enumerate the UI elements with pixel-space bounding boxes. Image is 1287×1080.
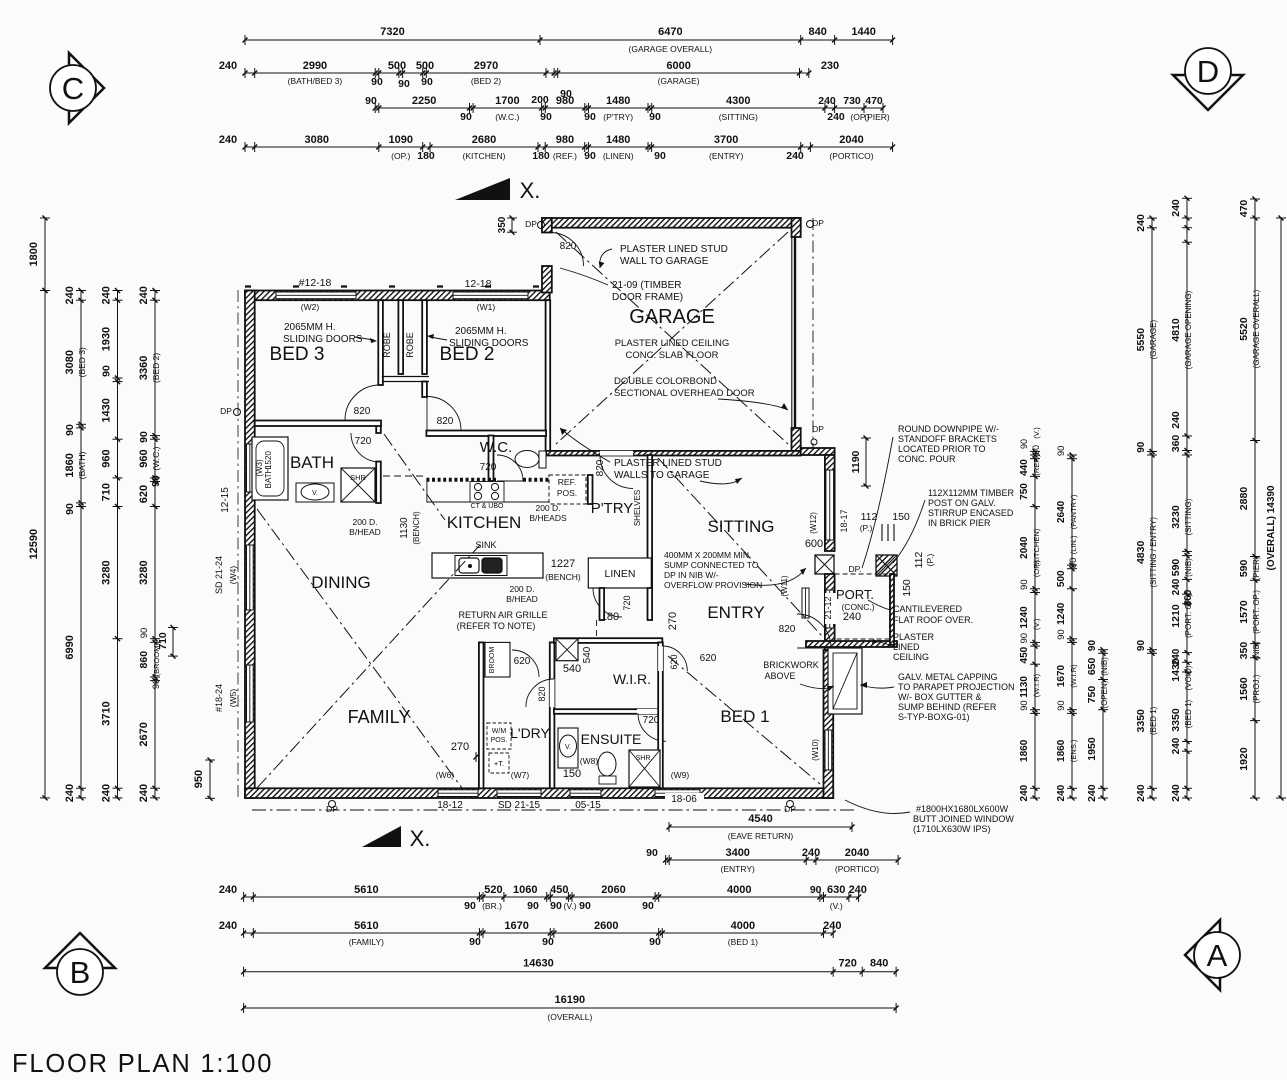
dimension col right-2: [1056, 446, 1079, 802]
diag dining-family 2: [257, 545, 480, 788]
svg-text:90: 90: [64, 424, 76, 436]
svg-text:240: 240: [823, 920, 841, 932]
svg-text:1480: 1480: [606, 134, 630, 146]
wall: sitting right jog top: [801, 448, 835, 455]
svg-text:90: 90: [1087, 640, 1098, 652]
wall: hall left stub: [376, 426, 381, 434]
svg-text:LINED: LINED: [893, 642, 920, 652]
svg-text:(SITTING): (SITTING): [719, 112, 758, 122]
svg-text:(OVERALL): (OVERALL): [547, 1012, 592, 1022]
svg-text:B/HEADS: B/HEADS: [529, 513, 567, 523]
svg-text:90: 90: [1019, 579, 1030, 590]
svg-text:90: 90: [460, 111, 472, 123]
svg-text:270: 270: [451, 741, 469, 753]
svg-text:2600: 2600: [594, 920, 618, 932]
svg-text:240: 240: [64, 784, 76, 802]
svg-text:2640: 2640: [1056, 500, 1067, 523]
svg-text:POST ON GALV.: POST ON GALV.: [928, 498, 996, 508]
svg-text:(W12): (W12): [809, 512, 818, 534]
svg-text:720: 720: [480, 462, 497, 473]
dimension bottom row-D: [219, 920, 842, 948]
svg-text:200 D.: 200 D.: [535, 503, 560, 513]
svg-text:BED 1: BED 1: [720, 707, 769, 726]
svg-text:LINEN: LINEN: [605, 568, 636, 580]
svg-text:90: 90: [1136, 640, 1147, 652]
dimension col right-5: [1170, 196, 1194, 802]
bath tub: [252, 437, 288, 500]
svg-text:90: 90: [1056, 446, 1067, 457]
svg-text:90: 90: [1019, 700, 1030, 711]
svg-text:(CONC.): (CONC.): [841, 602, 874, 612]
svg-text:2040: 2040: [845, 847, 869, 859]
svg-text:OVERFLOW PROVISION: OVERFLOW PROVISION: [664, 580, 762, 590]
svg-text:(SITTING / ENTRY): (SITTING / ENTRY): [1149, 517, 1158, 588]
broom closet: [485, 642, 510, 677]
svg-text:820: 820: [560, 241, 577, 252]
svg-text:590: 590: [1238, 559, 1250, 577]
svg-text:112X112MM TIMBER: 112X112MM TIMBER: [928, 488, 1015, 498]
wall: sitting right exterior: [825, 455, 835, 551]
bulkhead dash kitchen: [383, 475, 426, 477]
svg-text:960: 960: [101, 449, 113, 467]
svg-text:14630: 14630: [523, 958, 554, 970]
svg-text:240: 240: [138, 286, 150, 304]
svg-text:(W1): (W1): [477, 302, 496, 312]
dimension bottom row-B (3400 entry / 2040 portico): [646, 847, 900, 874]
svg-text:(PORTICO): (PORTICO): [835, 864, 879, 874]
svg-text:2880: 2880: [1238, 487, 1250, 511]
svg-text:3080: 3080: [64, 350, 76, 374]
corner marker A: [1185, 920, 1240, 990]
wall: bed2 left: [422, 382, 427, 398]
svg-text:ROBE: ROBE: [405, 332, 415, 358]
svg-text:1060: 1060: [513, 884, 537, 896]
svg-text:6470: 6470: [658, 26, 682, 38]
svg-text:(BENCH): (BENCH): [412, 511, 421, 545]
svg-text:(W2): (W2): [301, 302, 320, 312]
wall: garage bottom stud: [546, 451, 801, 456]
svg-text:90: 90: [1068, 558, 1079, 569]
svg-text:540: 540: [582, 646, 593, 663]
svg-text:1090: 1090: [389, 134, 413, 146]
svg-text:12-18: 12-18: [465, 278, 492, 290]
svg-text:B: B: [70, 955, 91, 990]
door arc bath 720: [351, 433, 380, 462]
svg-text:1670: 1670: [504, 920, 528, 932]
svg-text:1130: 1130: [1019, 676, 1030, 698]
svg-text:(GARAGE OVERALL): (GARAGE OVERALL): [1252, 289, 1261, 368]
tub box: [489, 753, 509, 773]
dimension col left-1b (12590): [28, 288, 50, 800]
svg-text:90: 90: [1031, 445, 1041, 455]
window W4 dining left: [247, 545, 254, 610]
svg-text:200 D.: 200 D.: [352, 517, 377, 527]
dimension col right-4: [1135, 214, 1158, 802]
svg-text:D: D: [1197, 54, 1219, 89]
svg-text:SLIDING DOORS: SLIDING DOORS: [283, 334, 363, 345]
svg-text:BUTT JOINED WINDOW: BUTT JOINED WINDOW: [913, 814, 1014, 824]
wall: pantry/linen divider: [648, 455, 653, 588]
svg-text:90: 90: [1019, 633, 1030, 644]
svg-text:(OP.): (OP.): [391, 151, 410, 161]
diag bed1: [668, 656, 820, 784]
dim 950 (left small): [193, 758, 215, 801]
svg-text:240: 240: [64, 286, 76, 304]
svg-text:(W3): (W3): [255, 459, 264, 477]
svg-text:SECTIONAL OVERHEAD DOOR: SECTIONAL OVERHEAD DOOR: [614, 388, 755, 399]
svg-text:16190: 16190: [555, 994, 586, 1006]
svg-text:240: 240: [101, 784, 113, 802]
diag hall: [384, 434, 445, 520]
svg-text:720: 720: [355, 436, 372, 447]
svg-text:ROUND DOWNPIPE W/-: ROUND DOWNPIPE W/-: [898, 424, 999, 434]
svg-text:FAMILY: FAMILY: [348, 707, 411, 727]
svg-text:WALLS TO GARAGE: WALLS TO GARAGE: [614, 470, 710, 481]
svg-text:720: 720: [839, 958, 857, 970]
svg-text:1227: 1227: [551, 558, 575, 570]
svg-text:90: 90: [365, 95, 377, 107]
svg-text:CONC. POUR: CONC. POUR: [898, 454, 956, 464]
svg-text:DP: DP: [326, 804, 338, 814]
svg-text:(KITCHEN): (KITCHEN): [463, 151, 506, 161]
kitchen sink unit: [455, 556, 507, 576]
svg-text:A: A: [1207, 938, 1228, 973]
svg-text:TO PARAPET PROJECTION: TO PARAPET PROJECTION: [898, 682, 1015, 692]
svg-text:240: 240: [1171, 578, 1182, 595]
svg-text:820: 820: [595, 459, 606, 476]
wc toilet: [515, 451, 539, 468]
svg-text:150: 150: [563, 768, 581, 780]
window W3 bath left: [247, 444, 254, 492]
svg-text:3710: 3710: [101, 701, 113, 725]
svg-text:DINING: DINING: [311, 573, 371, 592]
svg-text:3400: 3400: [725, 847, 749, 859]
svg-text:FLOOR PLAN 1:100: FLOOR PLAN 1:100: [12, 1050, 273, 1078]
door arc garage entry 820: [550, 233, 584, 267]
wall: wir/entry top: [554, 638, 662, 643]
svg-text:1190: 1190: [850, 450, 862, 473]
svg-text:90: 90: [371, 76, 383, 88]
svg-text:LOCATED PRIOR TO: LOCATED PRIOR TO: [898, 444, 986, 454]
svg-text:3280: 3280: [138, 560, 150, 584]
door arc wc 720: [497, 455, 523, 481]
svg-text:6990: 6990: [64, 635, 76, 659]
ref pos box: [549, 475, 586, 504]
door arc bed2 820: [427, 397, 461, 431]
svg-text:SD 21-15: SD 21-15: [498, 800, 541, 811]
svg-text:240: 240: [849, 884, 867, 896]
svg-text:1670: 1670: [1056, 664, 1067, 687]
wall: port front parapet: [806, 641, 897, 647]
door arc linen 720: [593, 588, 622, 617]
wall: hall/wc top (bed2 bottom): [426, 431, 546, 437]
svg-text:1570: 1570: [1238, 600, 1250, 624]
svg-text:90: 90: [150, 475, 162, 487]
label 21-12 rot: [825, 593, 836, 624]
svg-text:2670: 2670: [138, 722, 150, 746]
svg-text:(W8): (W8): [580, 756, 599, 766]
svg-text:730: 730: [843, 95, 861, 107]
svg-text:590: 590: [1170, 559, 1182, 577]
svg-text:SINK: SINK: [475, 540, 496, 550]
svg-text:(FAMILY): (FAMILY): [349, 937, 384, 947]
svg-text:SITTING: SITTING: [707, 517, 774, 536]
svg-text:90: 90: [527, 900, 539, 912]
svg-text:240: 240: [786, 150, 804, 162]
door gap laundry: [550, 679, 555, 707]
wall: garage left stud lower: [546, 300, 551, 455]
svg-text:SUMP BEHIND (REFER: SUMP BEHIND (REFER: [898, 702, 997, 712]
svg-text:(NIB): (NIB): [1100, 657, 1109, 676]
wall: wc left: [489, 436, 494, 482]
svg-text:(PORT. OP.): (PORT. OP.): [1252, 590, 1261, 634]
svg-text:470: 470: [865, 95, 883, 107]
svg-text:1480: 1480: [606, 95, 630, 107]
svg-text:90: 90: [542, 936, 554, 948]
svg-text:(EAVE RETURN): (EAVE RETURN): [728, 831, 794, 841]
svg-text:90: 90: [646, 847, 658, 859]
svg-text:KITCHEN: KITCHEN: [447, 513, 522, 532]
svg-text:(W5): (W5): [228, 689, 238, 708]
svg-text:SD 21-24: SD 21-24: [214, 556, 224, 594]
svg-text:3700: 3700: [714, 134, 738, 146]
wall: wir/bed1 divider: [658, 642, 663, 788]
svg-text:90: 90: [101, 365, 113, 377]
svg-text:(REF.): (REF.): [1032, 454, 1041, 476]
dimension col left-4: [138, 286, 162, 802]
svg-text:440: 440: [1019, 459, 1030, 476]
svg-text:(W4): (W4): [228, 566, 238, 585]
diag garage 2: [556, 232, 788, 444]
svg-text:W.C.: W.C.: [480, 439, 513, 456]
svg-text:W.I.R.: W.I.R.: [613, 671, 651, 687]
svg-text:SHR.: SHR.: [636, 755, 653, 762]
svg-text:1130: 1130: [399, 517, 410, 539]
svg-text:860: 860: [138, 651, 150, 669]
door arc broom: [512, 650, 539, 677]
svg-text:REF.: REF.: [558, 477, 576, 487]
svg-text:90: 90: [398, 78, 410, 90]
svg-text:DP: DP: [525, 219, 537, 229]
svg-text:90: 90: [649, 111, 661, 123]
svg-text:200: 200: [531, 94, 549, 106]
svg-text:620: 620: [669, 654, 679, 669]
door arc ensuite: [638, 713, 666, 741]
svg-text:3230: 3230: [1170, 505, 1182, 529]
svg-text:180: 180: [532, 150, 550, 162]
svg-text:(P.): (P.): [860, 523, 873, 533]
svg-text:240: 240: [1019, 784, 1030, 801]
svg-text:540: 540: [563, 663, 581, 675]
svg-text:5610: 5610: [354, 884, 378, 896]
label 1190 rot dim: [850, 436, 871, 489]
svg-text:P'TRY: P'TRY: [591, 500, 634, 517]
svg-text:W/- BOX GUTTER &: W/- BOX GUTTER &: [898, 692, 982, 702]
dimension col right-1: [1019, 427, 1041, 802]
svg-text:(REFER TO NOTE): (REFER TO NOTE): [457, 621, 536, 631]
svg-text:2065MM H.: 2065MM H.: [455, 326, 507, 337]
nib X-box sump: [815, 555, 834, 574]
svg-text:DP IN NIB W/-: DP IN NIB W/-: [664, 570, 719, 580]
svg-text:240: 240: [219, 134, 237, 146]
svg-text:ENSUITE: ENSUITE: [581, 731, 642, 747]
svg-text:90: 90: [1056, 629, 1067, 640]
wall: garage right exterior top stub: [792, 218, 801, 237]
door gap pantry-garage: [600, 451, 633, 456]
svg-text:B/HEAD: B/HEAD: [349, 527, 381, 537]
svg-text:180: 180: [417, 150, 435, 162]
svg-text:4300: 4300: [726, 95, 750, 107]
ens toilet: [598, 752, 616, 776]
wall: robe divider 2: [422, 300, 427, 374]
svg-text:112: 112: [913, 551, 925, 568]
svg-text:WALL TO GARAGE: WALL TO GARAGE: [620, 256, 709, 267]
svg-text:4540: 4540: [748, 813, 772, 825]
svg-text:240: 240: [1170, 411, 1182, 429]
wm pos box: [487, 723, 511, 749]
wall: bed3 bottom / bath top: [255, 421, 381, 427]
svg-text:90: 90: [550, 900, 562, 912]
svg-text:1860: 1860: [1056, 739, 1067, 762]
svg-text:1520: 1520: [264, 451, 273, 469]
door arc bed3 820: [345, 385, 380, 420]
svg-text:(BED 1): (BED 1): [1149, 706, 1158, 735]
svg-text:PLASTER LINED STUD: PLASTER LINED STUD: [614, 458, 722, 469]
ens shower: [629, 750, 660, 787]
svg-text:6000: 6000: [666, 60, 690, 72]
svg-text:PLASTER: PLASTER: [893, 632, 935, 642]
svg-text:BATH: BATH: [290, 453, 334, 472]
svg-text:(W11): (W11): [780, 575, 789, 597]
svg-text:L'DRY: L'DRY: [510, 725, 550, 741]
svg-text:950: 950: [193, 770, 205, 788]
wall: hall left below bath door: [376, 462, 381, 504]
svg-text:1860: 1860: [64, 453, 76, 477]
svg-text:(LIN.): (LIN.): [1069, 535, 1078, 554]
svg-text:(BENCH): (BENCH): [545, 572, 581, 582]
dimension row top-2 (240/2990/500s/2970/6000/230): [219, 60, 839, 106]
dim 710 (left small): [157, 625, 178, 659]
svg-text:450: 450: [550, 884, 568, 896]
svg-text:4000: 4000: [731, 920, 755, 932]
svg-text:(BED 2): (BED 2): [151, 353, 161, 383]
svg-text:C: C: [62, 71, 84, 106]
window 21-12 entry: [826, 590, 834, 628]
section marker X (top): [455, 178, 540, 203]
svg-text:(BATH): (BATH): [77, 451, 87, 479]
svg-text:150: 150: [901, 579, 913, 597]
svg-text:18-17: 18-17: [839, 509, 849, 532]
svg-text:980: 980: [556, 134, 574, 146]
svg-text:960: 960: [138, 449, 150, 467]
svg-text:980: 980: [556, 95, 574, 107]
pier X-box port NE: [876, 555, 897, 576]
door arc entry 820: [797, 614, 831, 648]
svg-text:(BED 1): (BED 1): [728, 937, 758, 947]
wall: robe divider 1: [378, 300, 383, 385]
svg-text:(BED 1): (BED 1): [1184, 699, 1193, 728]
svg-text:(BED 2): (BED 2): [471, 76, 501, 86]
svg-text:(W10): (W10): [811, 739, 820, 761]
svg-text:(V.): (V.): [830, 901, 843, 911]
svg-text:(P'TRY): (P'TRY): [603, 112, 633, 122]
svg-text:240: 240: [1170, 784, 1182, 802]
svg-text:90: 90: [584, 150, 596, 162]
svg-text:1950: 1950: [1086, 737, 1098, 761]
svg-text:IN BRICK PIER: IN BRICK PIER: [928, 518, 991, 528]
svg-text:350: 350: [1238, 642, 1250, 660]
svg-text:(PORTICO): (PORTICO): [829, 151, 873, 161]
svg-text:X.: X.: [410, 826, 431, 851]
dimension col right-6: [1238, 197, 1261, 801]
svg-text:05-15: 05-15: [575, 800, 601, 811]
svg-text:1240: 1240: [1056, 602, 1067, 625]
svg-text:2990: 2990: [303, 60, 327, 72]
svg-text:2060: 2060: [601, 884, 625, 896]
svg-text:CANTILEVERED: CANTILEVERED: [893, 604, 963, 614]
svg-text:820: 820: [537, 686, 547, 701]
svg-text:240: 240: [1086, 784, 1098, 802]
svg-text:90: 90: [810, 884, 822, 896]
svg-text:360: 360: [1170, 435, 1182, 453]
svg-text:(OPEN): (OPEN): [1100, 680, 1109, 708]
svg-text:DOOR FRAME): DOOR FRAME): [612, 292, 683, 303]
window W6 bottom: [438, 790, 478, 797]
eave line bottom: [252, 809, 858, 811]
svg-text:2040: 2040: [839, 134, 863, 146]
ens vanity: [558, 728, 578, 768]
svg-text:820: 820: [437, 416, 454, 427]
dimension col left-3: [101, 286, 123, 802]
svg-text:1210: 1210: [1170, 604, 1182, 628]
svg-text:90: 90: [1056, 700, 1067, 711]
svg-text:(PROJ.): (PROJ.): [1252, 674, 1261, 703]
svg-text:240: 240: [219, 884, 237, 896]
wall: garage top exterior: [542, 218, 801, 228]
svg-text:240: 240: [219, 60, 237, 72]
port slab outline: [835, 574, 890, 639]
svg-text:240: 240: [1135, 214, 1147, 232]
svg-text:7320: 7320: [380, 26, 404, 38]
svg-text:BED 3: BED 3: [270, 344, 325, 365]
svg-text:710: 710: [157, 632, 169, 650]
svg-text:(ENTRY): (ENTRY): [721, 864, 755, 874]
svg-text:#18-24: #18-24: [214, 684, 224, 712]
svg-text:3280: 3280: [101, 560, 113, 584]
svg-text:12590: 12590: [28, 529, 40, 560]
svg-text:90: 90: [1136, 441, 1147, 453]
svg-text:V.: V.: [565, 744, 571, 751]
return air X-box: [556, 639, 578, 661]
svg-text:V.: V.: [312, 490, 318, 497]
svg-text:240: 240: [1171, 737, 1182, 754]
svg-text:(V.): (V.): [1032, 427, 1041, 439]
kitchen cooktop: [470, 482, 504, 503]
window W8 bottom: [570, 790, 601, 797]
wall: left exterior: [245, 291, 255, 799]
svg-text:150: 150: [892, 511, 910, 523]
dim 350 garage rot: [497, 216, 517, 235]
svg-text:RETURN AIR GRILLE: RETURN AIR GRILLE: [458, 610, 547, 620]
svg-text:840: 840: [870, 958, 888, 970]
dimension bottom row-C: [219, 884, 867, 912]
svg-text:(W.I.R): (W.I.R): [1069, 664, 1078, 688]
svg-text:240: 240: [138, 784, 150, 802]
svg-text:2065MM H.: 2065MM H.: [284, 322, 336, 333]
wall: pantry left segment: [588, 475, 593, 504]
svg-text:X.: X.: [520, 178, 541, 203]
svg-text:820: 820: [779, 624, 796, 635]
